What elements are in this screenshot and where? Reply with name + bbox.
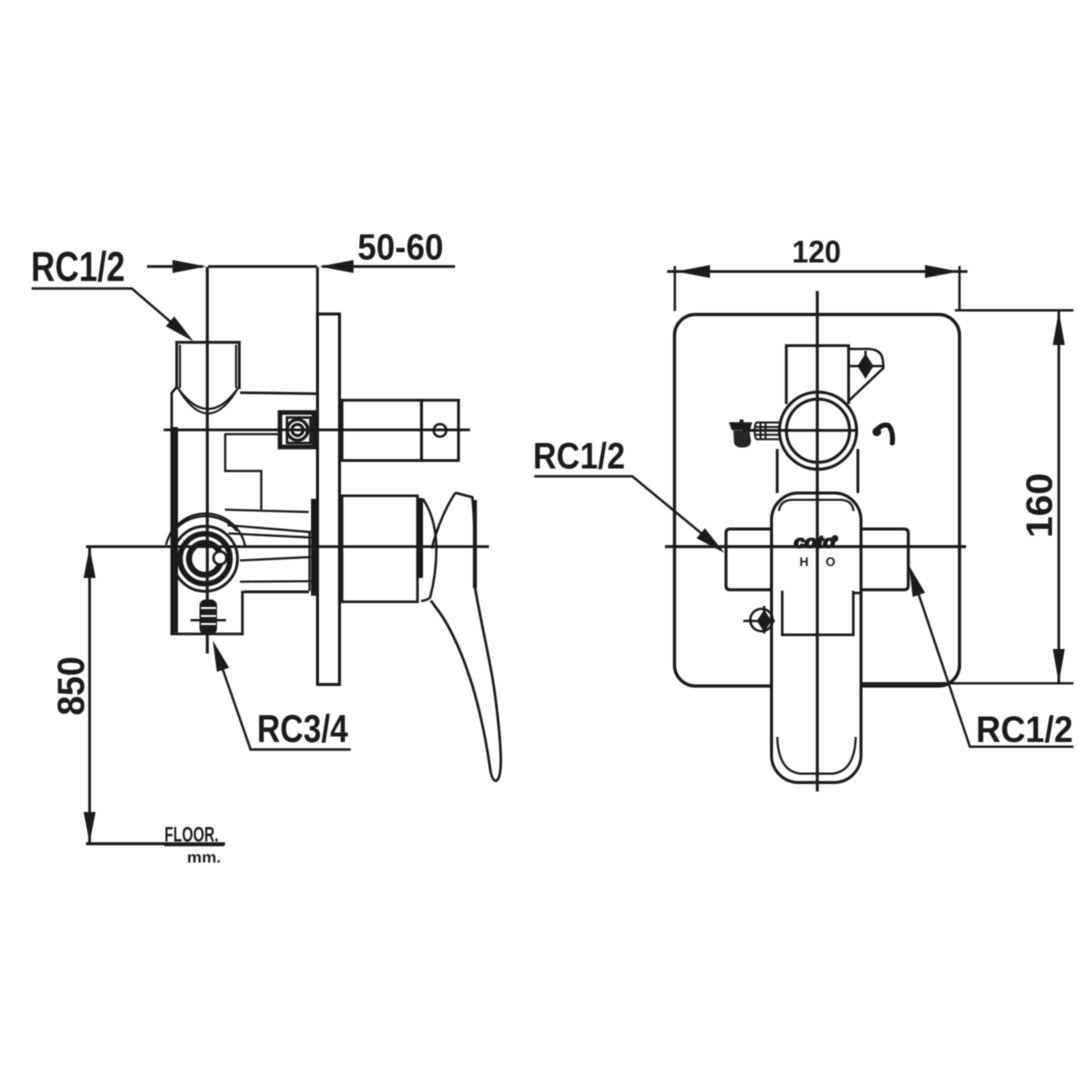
- svg-text:O: O: [826, 555, 836, 569]
- RC3/4 threaded stub: [200, 600, 218, 635]
- RC3/4 stub cross line: [191, 619, 227, 621]
- boss top arc: [166, 514, 246, 548]
- dimension 850 bottom arrow: [84, 812, 96, 843]
- left wing port: [726, 529, 772, 590]
- body outline left: [172, 387, 309, 634]
- shower outlet pipe (right of plate): [342, 400, 422, 460]
- handle blade (front): [772, 493, 862, 783]
- svg-text:coto: coto: [794, 533, 835, 552]
- dimension 850 line: [88, 548, 91, 843]
- bonnet divider thick: [418, 498, 423, 578]
- dimension 120 left arrow: [676, 265, 710, 278]
- FLOOR underline: [165, 844, 225, 847]
- inlet pipe bottom concave arcs: [177, 387, 240, 410]
- main axis centerline: [86, 545, 489, 548]
- lower-left screw: [750, 609, 772, 631]
- dimension 50-60 right arrow: [320, 260, 354, 273]
- handle right edge thick segment: [473, 500, 477, 588]
- svg-text:FLOOR.: FLOOR.: [165, 824, 219, 847]
- shower outlet cap hole: [434, 424, 447, 437]
- upper horizontal centerline front view: [743, 429, 858, 432]
- upper centerline: [164, 429, 470, 432]
- riser connection circle: [779, 392, 856, 469]
- mounting ear top-right: [849, 349, 884, 401]
- handle lever: [431, 493, 501, 781]
- valve body behind blade: [782, 591, 861, 635]
- ear screw cross: [849, 351, 884, 377]
- gasket dark strip: [311, 499, 316, 596]
- right wing port: [861, 529, 908, 590]
- svg-text:RC3/4: RC3/4: [257, 708, 348, 751]
- internal body steps: [225, 434, 309, 513]
- dimension 160 bottom arrow: [1053, 649, 1065, 683]
- label RC1/2 bottom-right underline and leader: [912, 575, 1074, 747]
- square side port inner circles: [287, 420, 308, 441]
- floor line: [86, 842, 225, 845]
- handle blade inner top arc: [779, 500, 854, 511]
- curved arrow icon right: [878, 425, 893, 443]
- svg-text:RC1/2: RC1/2: [31, 243, 125, 290]
- dimension 120 right arrow: [925, 265, 959, 278]
- dimension 160 top arrow: [1053, 311, 1065, 345]
- body left edge thick: [173, 427, 178, 633]
- extension line plate wall: [316, 267, 319, 315]
- riser tube top: [786, 346, 848, 404]
- square side port: [280, 413, 314, 448]
- svg-text:RC1/2: RC1/2: [533, 436, 625, 477]
- extension line / inlet centerline: [206, 267, 209, 654]
- shower outlet cap: [422, 400, 459, 460]
- dimension 50-60 line: [147, 265, 455, 268]
- label RC1/2 front-left underline and leader: [534, 476, 721, 549]
- handle blade inner bottom arc: [777, 737, 855, 774]
- body below circle: [777, 449, 858, 493]
- body top edge: [240, 393, 317, 394]
- svg-text:50-60: 50-60: [358, 227, 444, 268]
- label RC1/2 bottom-right arrowhead: [909, 566, 925, 598]
- handle left edge upper: [432, 493, 456, 549]
- label RC3/4 underline and leader: [216, 650, 351, 750]
- main horizontal centerline front view: [665, 545, 966, 548]
- vertical centerline front view: [816, 291, 819, 792]
- label RC1/2 top-left underline and leader: [32, 289, 190, 339]
- svg-text:mm.: mm.: [187, 850, 221, 867]
- inlet pipe RC1/2 (top): [177, 342, 240, 389]
- svg-text:120: 120: [792, 234, 841, 270]
- inlet stub left (threads): [755, 423, 782, 440]
- svg-text:RC1/2: RC1/2: [976, 709, 1073, 750]
- bonnet (cartridge housing): [342, 496, 418, 602]
- dimension 160 line: [1057, 311, 1060, 683]
- wall plate (side view): [318, 314, 340, 685]
- svg-text:160: 160: [1019, 473, 1060, 538]
- ear screw head: [858, 354, 874, 379]
- label RC1/2 front-left arrowhead: [697, 528, 725, 553]
- wall plate front (rounded square): [675, 315, 960, 687]
- svg-text:850: 850: [51, 657, 93, 716]
- dimension 120 line: [667, 270, 967, 273]
- spout arm lines: [228, 525, 312, 591]
- dimension 160 extension lines: [862, 310, 1074, 683]
- dimension 850 top arrow: [84, 547, 96, 578]
- handle hub arc: [421, 499, 436, 601]
- RC3/4 boss circles: [173, 526, 238, 591]
- svg-text:H: H: [799, 555, 808, 569]
- tap icon left: [729, 420, 752, 431]
- dimension 120 extension lines: [675, 266, 960, 311]
- label RC1/2 top-left arrowhead: [166, 316, 194, 341]
- label RC3/4 arrowhead: [213, 641, 229, 672]
- dimension 50-60 left arrow: [173, 260, 207, 273]
